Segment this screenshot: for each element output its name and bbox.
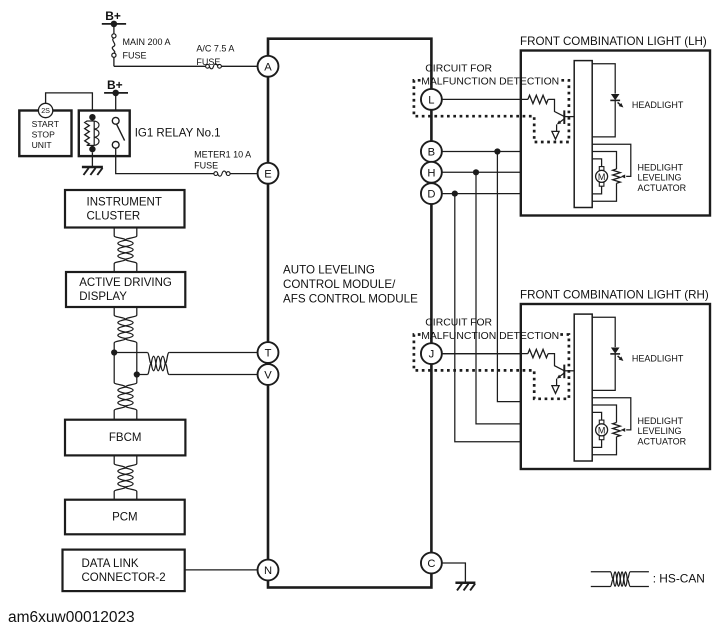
svg-text:M: M <box>598 172 606 182</box>
svg-text:HEDLIGHT: HEDLIGHT <box>638 162 684 172</box>
svg-text:J: J <box>429 349 435 361</box>
svg-text:HEADLIGHT: HEADLIGHT <box>632 353 684 363</box>
svg-text:STOP: STOP <box>32 130 56 140</box>
svg-text:C: C <box>427 558 435 570</box>
svg-text:AUTO LEVELING: AUTO LEVELING <box>283 264 375 277</box>
svg-text:E: E <box>264 168 271 180</box>
svg-text:CIRCUIT FOR: CIRCUIT FOR <box>425 318 492 329</box>
svg-text:FBCM: FBCM <box>109 432 142 444</box>
svg-text:L: L <box>428 94 434 106</box>
svg-text:ACTUATOR: ACTUATOR <box>638 436 687 446</box>
svg-text:INSTRUMENT: INSTRUMENT <box>87 196 162 208</box>
svg-text:IG1 RELAY No.1: IG1 RELAY No.1 <box>135 127 221 139</box>
svg-text:N: N <box>264 565 272 577</box>
svg-text:FUSE: FUSE <box>196 57 220 67</box>
svg-text:FRONT COMBINATION LIGHT (RH): FRONT COMBINATION LIGHT (RH) <box>520 288 709 301</box>
svg-text:MAIN 200 A: MAIN 200 A <box>123 37 171 47</box>
svg-text:A/C 7.5 A: A/C 7.5 A <box>196 44 234 54</box>
svg-text:FUSE: FUSE <box>123 50 147 60</box>
svg-text:CONNECTOR-2: CONNECTOR-2 <box>82 572 166 584</box>
svg-text:DATA LINK: DATA LINK <box>82 558 139 570</box>
svg-text:T: T <box>265 348 272 360</box>
svg-text:ACTUATOR: ACTUATOR <box>638 183 687 193</box>
svg-text:CONTROL MODULE/: CONTROL MODULE/ <box>283 278 396 291</box>
svg-text:LEVELING: LEVELING <box>638 173 682 183</box>
svg-text:MALFUNCTION DETECTION: MALFUNCTION DETECTION <box>421 331 559 342</box>
svg-text:D: D <box>427 189 435 201</box>
svg-text:HEADLIGHT: HEADLIGHT <box>632 100 684 110</box>
svg-text:B: B <box>428 147 435 159</box>
svg-text:M: M <box>598 425 606 435</box>
svg-text:am6xuw00012023: am6xuw00012023 <box>8 609 135 626</box>
svg-text:: HS-CAN: : HS-CAN <box>653 571 705 585</box>
svg-text:CIRCUIT FOR: CIRCUIT FOR <box>425 64 492 75</box>
svg-text:METER1 10 A: METER1 10 A <box>194 150 251 160</box>
svg-text:CLUSTER: CLUSTER <box>87 210 141 222</box>
svg-text:HEDLIGHT: HEDLIGHT <box>638 416 684 426</box>
svg-text:H: H <box>427 167 435 179</box>
svg-text:DISPLAY: DISPLAY <box>79 291 127 303</box>
svg-text:V: V <box>264 370 272 382</box>
svg-text:MALFUNCTION DETECTION: MALFUNCTION DETECTION <box>421 77 559 88</box>
svg-text:UNIT: UNIT <box>32 140 53 150</box>
svg-text:AFS CONTROL MODULE: AFS CONTROL MODULE <box>283 293 418 306</box>
svg-text:ACTIVE DRIVING: ACTIVE DRIVING <box>79 277 172 289</box>
svg-text:2S: 2S <box>41 106 50 115</box>
svg-text:A: A <box>264 61 272 73</box>
svg-text:LEVELING: LEVELING <box>638 426 682 436</box>
svg-text:FUSE: FUSE <box>194 161 218 171</box>
svg-text:FRONT COMBINATION LIGHT (LH): FRONT COMBINATION LIGHT (LH) <box>520 35 707 48</box>
svg-text:START: START <box>32 119 60 129</box>
svg-text:PCM: PCM <box>112 512 138 524</box>
